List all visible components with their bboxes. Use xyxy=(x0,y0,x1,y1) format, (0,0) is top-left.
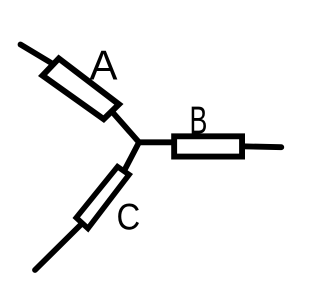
svg-text:B: B xyxy=(189,99,207,142)
svg-text:C: C xyxy=(116,197,140,238)
svg-text:A: A xyxy=(90,42,118,89)
